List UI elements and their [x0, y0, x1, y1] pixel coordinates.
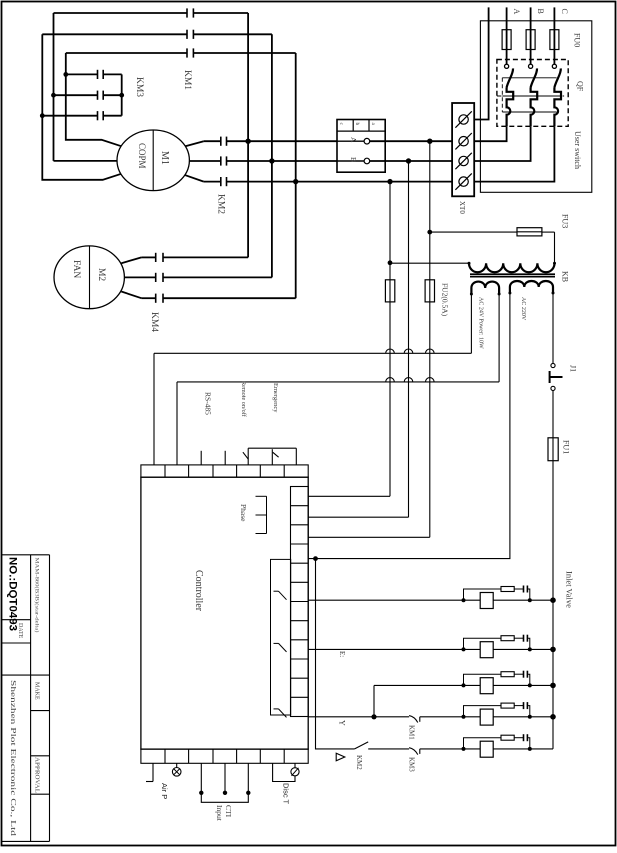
- breaker QF pole 2: [529, 64, 533, 68]
- wire phase-C top line with KM1 contact: [66, 52, 187, 54]
- svg-text:APPROVAL: APPROVAL: [33, 757, 39, 793]
- wire rung at y=748.9: [420, 748, 553, 750]
- controller box: [141, 477, 308, 749]
- contactor KM3 star contact 1: [66, 73, 98, 75]
- fuse FU0 phase A: [502, 30, 511, 50]
- switch remote on/off: [247, 448, 249, 465]
- transformer 24V secondary winding: [471, 282, 499, 294]
- fuse FU0 phase B: [526, 30, 535, 50]
- RC snubber capacitor: [523, 586, 525, 593]
- svg-text:Shenzhen Plot Electronic Co.,: Shenzhen Plot Electronic Co., Ltd: [9, 680, 17, 837]
- switch emergency: [271, 449, 273, 465]
- relay coil: [480, 642, 493, 658]
- svg-text:KB: KB: [560, 271, 569, 282]
- node junction line3/KM3-1: [63, 72, 68, 77]
- wire delta bus 1: [247, 13, 249, 257]
- RC snubber resistor: [464, 638, 502, 649]
- contactor KM3 star contact 3: [42, 115, 97, 117]
- RC snubber capacitor: [523, 671, 525, 678]
- svg-text:Emergency: Emergency: [272, 383, 279, 413]
- wire 24V line1 horizontal with hops: [154, 349, 471, 353]
- wire CTI input 2: [224, 763, 226, 793]
- svg-text:A: A: [349, 137, 358, 143]
- svg-text:Air P: Air P: [160, 783, 169, 799]
- phase monitor terminal B: [337, 160, 364, 162]
- switch J1: [551, 363, 555, 367]
- controller right terminal strip: [291, 487, 309, 717]
- transformer KB core: [470, 273, 555, 275]
- svg-text:XT0: XT0: [458, 201, 466, 214]
- svg-text:Inlet Valve: Inlet Valve: [564, 571, 574, 608]
- wire fan wire 3: [121, 292, 141, 299]
- transformer 220V secondary winding: [510, 281, 553, 293]
- wire control feed A vertical with FU2: [429, 141, 431, 537]
- node valve bus junction: [550, 683, 556, 689]
- svg-text:E:: E:: [338, 651, 346, 657]
- svg-text:KM3: KM3: [408, 757, 416, 772]
- wire motor U right to KM2: [185, 141, 203, 146]
- wire QF pole2 to XT0: [474, 126, 530, 161]
- wire left vertical from line2 to motor V: [42, 34, 121, 180]
- RC snubber resistor: [464, 589, 502, 600]
- node valve bus junction: [550, 647, 556, 653]
- breaker QF pole 3: [552, 64, 556, 68]
- node snubber left: [462, 598, 466, 602]
- phase monitor terminal A: [337, 140, 364, 142]
- wire rung5 feed vertical: [316, 559, 355, 749]
- svg-text:RS-485: RS-485: [204, 392, 213, 415]
- node snubber left: [462, 715, 466, 719]
- svg-text:KM1: KM1: [408, 725, 416, 740]
- phase monitor box: [337, 120, 385, 173]
- terminal block XT0: [452, 103, 474, 196]
- svg-text:NO.:DQT0493: NO.:DQT0493: [7, 557, 19, 631]
- wire CTI input 3: [247, 763, 249, 793]
- contactor KM2 contact 3: [204, 181, 221, 183]
- svg-text:MAM-860(B3B)(star-delta): MAM-860(B3B)(star-delta): [34, 558, 41, 633]
- breaker QF mechanical link dashed: [497, 95, 564, 97]
- transformer KB primary winding: [469, 263, 554, 272]
- RC snubber resistor: [464, 706, 502, 717]
- svg-text:M1: M1: [159, 151, 170, 165]
- svg-text:DATE: DATE: [17, 623, 23, 639]
- wire left vertical from line1 to motor U: [53, 13, 55, 161]
- delta symbol: [336, 753, 345, 761]
- user switch enclosure box: [480, 21, 591, 193]
- node snubber left: [462, 683, 466, 687]
- fuse FU1: [548, 438, 558, 461]
- wire QF pole1 to XT0: [474, 126, 506, 141]
- svg-text:FAN: FAN: [71, 260, 81, 278]
- controller internal contact: [274, 590, 279, 592]
- node rung5 feed tap: [313, 556, 318, 561]
- wire RS-485 stub 2: [224, 451, 226, 465]
- contact KM2 aux on rung5: [355, 742, 369, 749]
- svg-text:KM3: KM3: [134, 77, 144, 97]
- RC snubber resistor: [464, 674, 502, 685]
- breaker QF inner frame: [502, 77, 556, 79]
- wire Disc T bracket: [273, 763, 295, 781]
- svg-text:M2: M2: [96, 268, 106, 281]
- svg-text:A: A: [512, 9, 521, 15]
- svg-text:C: C: [560, 9, 569, 14]
- node row1 branch to control: [427, 139, 432, 144]
- node FU3 tap: [427, 230, 432, 235]
- svg-text:B: B: [536, 9, 545, 14]
- wire delta bus 2: [271, 34, 273, 277]
- svg-text:MAKE: MAKE: [33, 682, 39, 700]
- sensor Air P transducer symbol: [172, 768, 181, 777]
- wire RS-485 stub 1: [200, 451, 202, 465]
- controller top terminal strip: [141, 465, 308, 477]
- wire 220V right lead: [552, 293, 554, 363]
- wire 24V lead 1 to controller: [470, 294, 472, 353]
- relay coil: [480, 709, 493, 725]
- svg-text:User switch: User switch: [573, 131, 582, 169]
- wire phase-A top line with KM1 contact: [54, 12, 188, 14]
- svg-text:Phase: Phase: [239, 504, 248, 522]
- fuse FU0 phase C: [550, 30, 559, 50]
- controller internal contact: [274, 642, 279, 644]
- wire left vertical from line3 to motor W: [66, 53, 121, 146]
- svg-text:AC 24V Power: 10W: AC 24V Power: 10W: [477, 297, 483, 349]
- fuse FU2 on C feed: [385, 280, 394, 302]
- contactor KM2 contact 1: [204, 140, 221, 142]
- contactor KM4 contact 2: [124, 276, 155, 278]
- wire motor W right to KM2: [185, 175, 203, 181]
- node row3 branch to control: [387, 179, 392, 184]
- wire primary left feed: [390, 262, 469, 264]
- contact KM3 aux on rung5: [409, 748, 418, 755]
- wire phase-B top line with KM1 contact: [42, 33, 187, 35]
- node junction line1/KM3-2: [51, 93, 56, 98]
- wire delta bus 3: [295, 53, 297, 298]
- wire neutral bypass to XT0: [474, 7, 488, 119]
- wire control feed B vertical: [408, 161, 410, 517]
- svg-text:KM4: KM4: [149, 312, 159, 332]
- wire 220V left lead to controller: [308, 293, 510, 559]
- emergency stop bridge: [248, 447, 296, 449]
- svg-text:Disc T: Disc T: [282, 783, 291, 805]
- svg-text:AC 220V: AC 220V: [520, 297, 526, 321]
- wire J1 to FU1: [552, 391, 554, 438]
- wire 24V lead 2 to controller: [498, 294, 500, 382]
- node snubber right: [528, 683, 532, 687]
- node junction star point: [119, 93, 124, 98]
- svg-text:J1: J1: [568, 365, 577, 372]
- wire rung at y=716.8: [420, 716, 553, 718]
- title block frame: [2, 554, 50, 556]
- node snubber right: [528, 715, 532, 719]
- contactor KM4 contact 1: [141, 256, 155, 258]
- terminal XT0 at y=141.2: [459, 137, 468, 146]
- node rung3/rung4 junction: [371, 714, 376, 719]
- svg-text:Y: Y: [337, 720, 346, 726]
- svg-text:Remote on/off: Remote on/off: [240, 381, 247, 418]
- contactor KM3 star contact 2: [54, 94, 98, 96]
- svg-text:FU3: FU3: [560, 214, 569, 228]
- contactor KM2 contact 2: [189, 160, 220, 162]
- wire KM3 star point vertical: [121, 74, 123, 115]
- svg-text:QF: QF: [575, 81, 584, 92]
- node valve bus junction: [550, 714, 556, 720]
- svg-text:KM1: KM1: [182, 70, 192, 90]
- sensor Disc T probe symbol: [291, 768, 299, 776]
- node row2 branch to control: [406, 158, 411, 163]
- svg-text:B: B: [349, 157, 358, 162]
- node bus2/row2: [269, 158, 274, 163]
- relay coil: [480, 741, 493, 757]
- svg-text:COPM: COPM: [137, 143, 147, 169]
- controller internal contact: [274, 708, 279, 710]
- wire valve supply bus: [552, 461, 554, 749]
- wire A terminal to XT0: [370, 140, 452, 142]
- wire control feed C vertical with FU2: [389, 182, 391, 497]
- svg-text:FU1: FU1: [561, 440, 570, 454]
- svg-text:KM2: KM2: [216, 194, 226, 214]
- svg-text:CTI: CTI: [224, 805, 233, 818]
- node snubber right: [528, 747, 532, 751]
- fuse FU2 on A feed: [425, 280, 434, 302]
- wire rung at y=649.4: [308, 648, 553, 650]
- motor M1 COPM: [117, 130, 189, 191]
- wire Air P terminal: [152, 763, 154, 781]
- RC snubber resistor: [464, 738, 502, 749]
- node bus3/row3: [293, 179, 298, 184]
- terminal XT0 at y=161.0: [459, 156, 468, 165]
- node snubber left: [462, 747, 466, 751]
- RC snubber capacitor: [523, 702, 525, 709]
- motor M2 FAN: [54, 246, 124, 309]
- node snubber right: [528, 647, 532, 651]
- node snubber right: [528, 598, 532, 602]
- contactor KM4 contact 3: [141, 297, 155, 299]
- terminal XT0 at y=181.6: [459, 177, 468, 186]
- node junction line2/KM3-3: [40, 113, 45, 118]
- contact KM1 aux on rung4: [409, 716, 418, 723]
- wire rung4 left: [308, 716, 409, 718]
- wire rung at y=600.2: [308, 599, 553, 601]
- controller bottom terminal strip: [141, 749, 308, 763]
- CTI group bracket: [201, 794, 248, 802]
- node bus1/row1: [245, 139, 250, 144]
- RC snubber capacitor: [523, 734, 525, 741]
- controller inner relay block: [271, 559, 291, 715]
- RC snubber capacitor: [523, 635, 525, 642]
- svg-text:b: b: [354, 123, 360, 126]
- node snubber left: [462, 647, 466, 651]
- wire controller terminal2 riser: [176, 382, 178, 465]
- wire CTI input 1: [200, 763, 202, 793]
- svg-text:Controller: Controller: [193, 570, 204, 612]
- wire incoming phase A: [506, 7, 508, 64]
- wire QF pole3 to XT0: [474, 126, 554, 181]
- terminal XT0 at y=119.5: [459, 115, 468, 124]
- svg-text:FU2(0.5A): FU2(0.5A): [441, 283, 450, 317]
- svg-text:KM2: KM2: [355, 755, 363, 770]
- node primary left tap: [388, 260, 393, 265]
- wire fan wire 1: [121, 257, 141, 263]
- relay coil: [480, 678, 493, 694]
- svg-text:FU0: FU0: [572, 33, 581, 47]
- wire rung3 feed: [373, 685, 375, 716]
- breaker QF pole 1: [505, 64, 509, 68]
- fuse FU3: [430, 231, 517, 233]
- wire 24V line2 horizontal with hops: [177, 378, 499, 382]
- svg-text:Input: Input: [215, 805, 224, 822]
- phase group bracket: [256, 495, 267, 497]
- wire incoming phase C: [553, 7, 555, 64]
- wire controller terminal1 riser: [153, 353, 155, 465]
- relay coil: [480, 593, 493, 609]
- breaker QF dashed box: [497, 60, 568, 127]
- wire B terminal to XT0: [370, 160, 452, 162]
- wire incoming phase B: [530, 7, 532, 64]
- wire rung at y=685.4: [374, 684, 553, 686]
- node valve bus junction: [550, 597, 556, 603]
